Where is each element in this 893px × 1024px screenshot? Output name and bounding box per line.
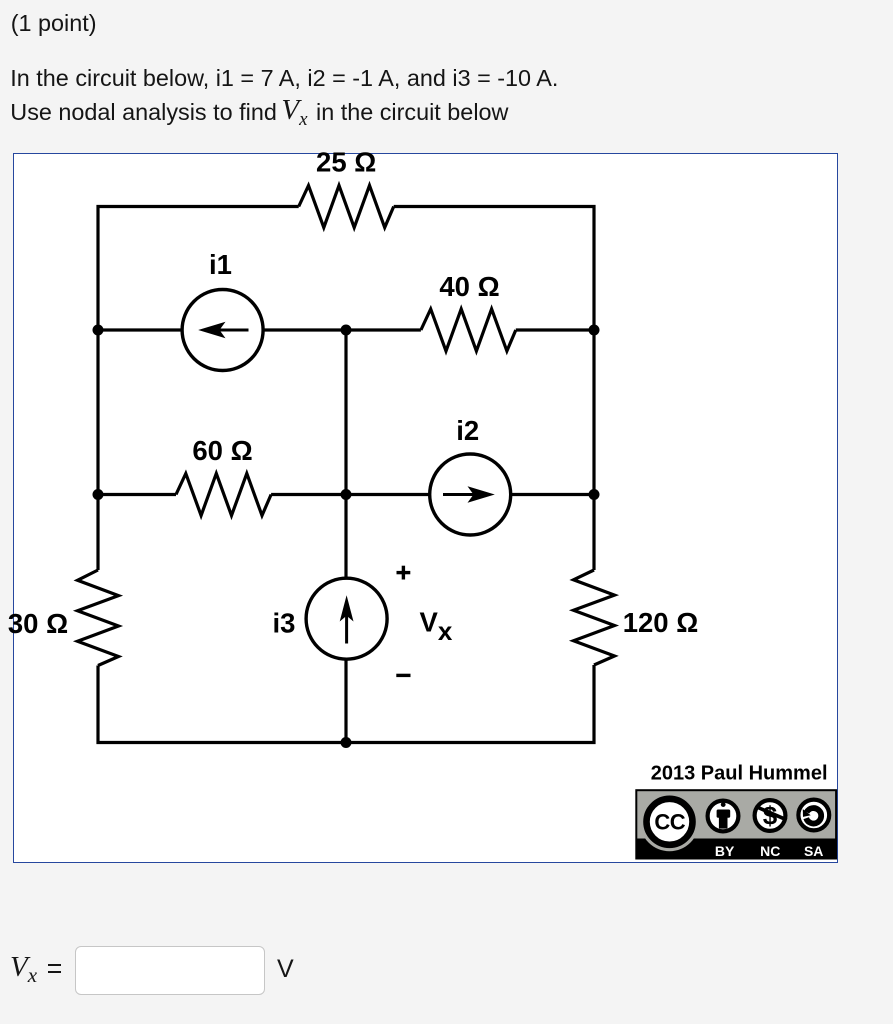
svg-text:2013 Paul Hummel: 2013 Paul Hummel <box>651 763 828 785</box>
svg-text:i3: i3 <box>273 607 296 638</box>
svg-text:Vx: Vx <box>420 607 453 647</box>
svg-text:30 Ω: 30 Ω <box>8 608 68 639</box>
svg-text:NC: NC <box>760 843 780 859</box>
svg-text:120 Ω: 120 Ω <box>623 607 699 638</box>
svg-text:40 Ω: 40 Ω <box>439 271 499 302</box>
svg-text:25 Ω: 25 Ω <box>316 147 376 178</box>
svg-text:i1: i1 <box>209 249 232 280</box>
svg-text:SA: SA <box>804 843 823 859</box>
svg-text:CC: CC <box>654 809 685 834</box>
svg-text:i2: i2 <box>456 415 479 446</box>
svg-text:BY: BY <box>715 843 735 859</box>
svg-text:60 Ω: 60 Ω <box>192 435 252 466</box>
